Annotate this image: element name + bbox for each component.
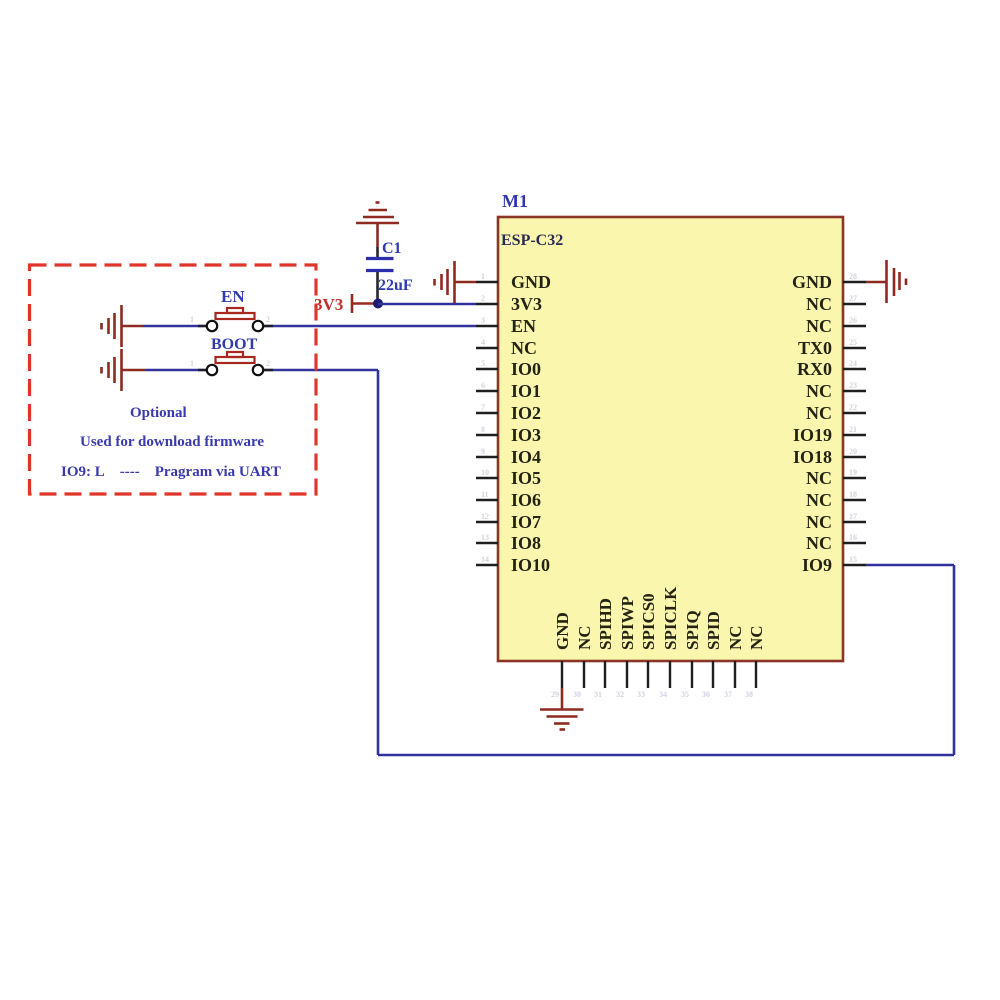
svg-text:ESP-C32: ESP-C32 [501, 232, 563, 249]
svg-text:NC: NC [575, 625, 594, 650]
svg-text:IO9: L ---- Pragram via: IO9: L ---- Pragram via UART [61, 464, 281, 480]
svg-text:22: 22 [849, 403, 857, 412]
svg-text:5: 5 [481, 359, 485, 368]
pin NC r3 stub [843, 325, 866, 327]
wire EN ground to button [143, 325, 207, 328]
pushbutton EN [198, 308, 273, 331]
svg-text:NC: NC [747, 625, 766, 650]
pin NC left stub [476, 347, 498, 349]
pin IO19 stub [843, 434, 866, 436]
svg-text:IO9: IO9 [802, 555, 832, 575]
svg-text:29: 29 [551, 690, 559, 699]
ground G3 right of module GND pin [866, 260, 906, 303]
svg-text:RX0: RX0 [797, 359, 832, 379]
svg-text:NC: NC [806, 490, 832, 510]
svg-text:2: 2 [266, 359, 270, 368]
svg-text:32: 32 [616, 690, 624, 699]
svg-text:IO8: IO8 [511, 533, 541, 553]
svg-text:SPICS0: SPICS0 [639, 593, 658, 650]
svg-text:35: 35 [681, 690, 689, 699]
pin TX0 stub [843, 347, 866, 349]
svg-text:IO3: IO3 [511, 425, 541, 445]
svg-text:2: 2 [481, 294, 485, 303]
svg-text:Used for download firmware: Used for download firmware [80, 434, 264, 450]
svg-text:TX0: TX0 [798, 338, 832, 358]
svg-text:C1: C1 [382, 240, 402, 257]
svg-text:37: 37 [724, 690, 732, 699]
svg-text:3V3: 3V3 [314, 295, 343, 314]
wire EN button to module pin [264, 325, 477, 328]
wire IO9 to loop [866, 564, 954, 567]
svg-text:NC: NC [511, 338, 537, 358]
svg-text:20: 20 [849, 447, 857, 456]
pin NC b10 stub [755, 661, 757, 688]
wire right vertical of loop [953, 565, 956, 755]
wire 3V3 node to module pin [378, 303, 476, 306]
pin IO1 stub [476, 390, 498, 392]
svg-text:9: 9 [481, 447, 485, 456]
svg-text:6: 6 [481, 381, 485, 390]
svg-text:24: 24 [849, 359, 857, 368]
svg-text:M1: M1 [502, 191, 528, 211]
svg-text:33: 33 [637, 690, 645, 699]
svg-text:NC: NC [806, 294, 832, 314]
svg-text:3V3: 3V3 [511, 294, 542, 314]
pin SPICS0 stub [647, 661, 649, 688]
pin NC r13 stub [843, 542, 866, 544]
wire bottom of loop [378, 754, 954, 757]
svg-text:SPIQ: SPIQ [683, 610, 702, 650]
module M1 body [498, 217, 843, 661]
svg-text:IO19: IO19 [793, 425, 832, 445]
wire BOOT ground to button [145, 369, 207, 372]
svg-text:10: 10 [481, 468, 489, 477]
svg-text:NC: NC [806, 512, 832, 532]
pin IO8 stub [476, 542, 498, 544]
svg-text:IO4: IO4 [511, 447, 541, 467]
svg-text:14: 14 [481, 555, 489, 564]
pin NC r12 stub [843, 521, 866, 523]
svg-text:25: 25 [849, 338, 857, 347]
pin NC b2 stub [583, 661, 585, 688]
pin GND bottom stub [561, 661, 563, 688]
svg-text:SPID: SPID [704, 611, 723, 650]
pin SPIQ stub [691, 661, 693, 688]
pin IO9 stub [843, 564, 866, 566]
svg-text:31: 31 [594, 690, 602, 699]
svg-text:SPICLK: SPICLK [661, 586, 680, 650]
svg-text:27: 27 [849, 294, 857, 303]
ground G5 left of EN button [102, 305, 144, 347]
svg-text:EN: EN [221, 287, 245, 306]
ground G1 top (above C1) [356, 203, 399, 248]
annotation dashed box Optional [30, 265, 317, 494]
svg-text:IO18: IO18 [793, 447, 832, 467]
svg-text:19: 19 [849, 468, 857, 477]
svg-text:22uF: 22uF [378, 277, 413, 294]
svg-text:13: 13 [481, 533, 489, 542]
pin NC r2 stub [843, 303, 866, 305]
pin IO3 stub [476, 434, 498, 436]
svg-text:12: 12 [481, 512, 489, 521]
svg-text:38: 38 [745, 690, 753, 699]
ground G6 left of BOOT button [102, 349, 146, 391]
pin NC r10 stub [843, 477, 866, 479]
net flag tick 3V3 [351, 294, 354, 313]
svg-text:28: 28 [849, 272, 857, 281]
pin 3V3 left stub [476, 303, 498, 305]
svg-text:34: 34 [659, 690, 667, 699]
svg-text:30: 30 [573, 690, 581, 699]
pin IO4 stub [476, 456, 498, 458]
pin IO0 stub [476, 368, 498, 370]
svg-text:GND: GND [792, 272, 832, 292]
pin IO6 stub [476, 499, 498, 501]
svg-text:11: 11 [481, 490, 489, 499]
pin SPICLK stub [669, 661, 671, 688]
svg-text:3: 3 [481, 316, 485, 325]
svg-text:IO5: IO5 [511, 468, 541, 488]
svg-text:1: 1 [190, 359, 194, 368]
capacitor C1 [366, 247, 394, 300]
svg-text:Optional: Optional [130, 405, 187, 421]
svg-text:16: 16 [849, 533, 857, 542]
pin NC r6 stub [843, 390, 866, 392]
pin NC b9 stub [734, 661, 736, 688]
pin GND right stub [843, 281, 866, 283]
svg-text:1: 1 [190, 315, 194, 324]
pin SPIWP stub [626, 661, 628, 688]
svg-text:26: 26 [849, 316, 857, 325]
pushbutton BOOT [198, 352, 273, 375]
svg-text:NC: NC [806, 381, 832, 401]
wire BOOT button right segment [264, 369, 379, 372]
wire vertical left of loop [377, 370, 380, 755]
ground G2 left of GND pin [435, 261, 477, 303]
svg-text:18: 18 [849, 490, 857, 499]
svg-text:NC: NC [806, 533, 832, 553]
svg-text:7: 7 [481, 403, 485, 412]
ground G4 below module bottom GND pin [540, 688, 584, 730]
svg-text:17: 17 [849, 512, 857, 521]
svg-text:8: 8 [481, 425, 485, 434]
pin NC r11 stub [843, 499, 866, 501]
pin IO2 stub [476, 412, 498, 414]
wire 3V3 red segment [352, 302, 378, 305]
svg-text:IO6: IO6 [511, 490, 541, 510]
svg-text:NC: NC [806, 468, 832, 488]
svg-text:IO0: IO0 [511, 359, 541, 379]
pin NC r7 stub [843, 412, 866, 414]
pin IO18 stub [843, 456, 866, 458]
svg-text:EN: EN [511, 316, 536, 336]
svg-text:NC: NC [806, 403, 832, 423]
svg-text:GND: GND [553, 612, 572, 650]
svg-text:IO1: IO1 [511, 381, 541, 401]
svg-text:NC: NC [726, 625, 745, 650]
pin IO5 stub [476, 477, 498, 479]
junction node 3V3 [373, 299, 383, 309]
pin IO10 stub [476, 564, 498, 566]
svg-text:2: 2 [266, 315, 270, 324]
svg-text:4: 4 [481, 338, 485, 347]
svg-text:23: 23 [849, 381, 857, 390]
svg-text:SPIHD: SPIHD [596, 598, 615, 650]
svg-text:IO7: IO7 [511, 512, 541, 532]
pin IO7 stub [476, 521, 498, 523]
pin 3 GND left stub [476, 281, 498, 283]
svg-text:21: 21 [849, 425, 857, 434]
svg-text:BOOT: BOOT [211, 336, 258, 353]
pin RX0 stub [843, 368, 866, 370]
pin SPIHD stub [604, 661, 606, 688]
pin SPID stub [712, 661, 714, 688]
svg-text:GND: GND [511, 272, 551, 292]
svg-text:IO2: IO2 [511, 403, 541, 423]
svg-text:SPIWP: SPIWP [618, 596, 637, 650]
svg-text:NC: NC [806, 316, 832, 336]
pin EN left stub [476, 325, 498, 327]
svg-text:15: 15 [849, 555, 857, 564]
svg-text:IO10: IO10 [511, 555, 550, 575]
svg-text:36: 36 [702, 690, 710, 699]
svg-text:1: 1 [481, 272, 485, 281]
